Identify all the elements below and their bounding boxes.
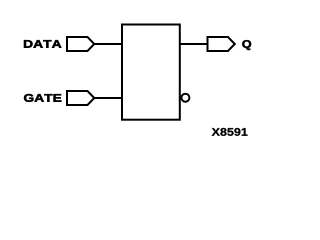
input pin GATE [67, 91, 94, 105]
wire body to Q [180, 43, 208, 45]
output pin Q [208, 37, 235, 51]
wire GATE to body [95, 97, 123, 99]
inversion bubble [181, 94, 189, 102]
label Q [242, 40, 251, 50]
figure number X8591 [212, 128, 248, 136]
input pin DATA [67, 37, 94, 51]
latch body U1 [122, 25, 180, 120]
wire DATA to body [95, 43, 123, 45]
label DATA [24, 40, 61, 48]
label GATE [24, 94, 61, 102]
